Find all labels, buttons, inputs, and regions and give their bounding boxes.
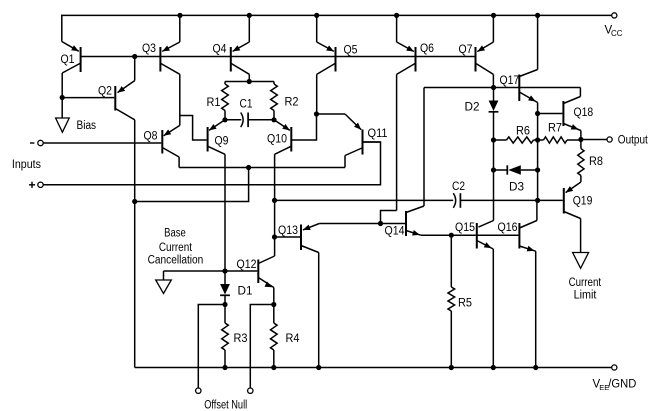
- terminal inverting input: [38, 140, 43, 145]
- svg-text:Q11: Q11: [368, 128, 388, 140]
- junction 537.6,200.4: [535, 198, 540, 203]
- junction 493.5,RAIL_T: [491, 13, 496, 18]
- wire Q6 collector: [396, 74, 398, 210]
- junction 180,RAIL_T: [177, 13, 182, 18]
- label plus: [29, 182, 35, 188]
- svg-text:Q13: Q13: [278, 225, 298, 237]
- wire Q14 collector: [423, 88, 425, 207]
- wire Q3 collector: [179, 74, 181, 125]
- wire Q13 base: [275, 236, 301, 238]
- label Bias: [77, 120, 97, 132]
- transistor Q8: [162, 125, 180, 157]
- svg-text:CC: CC: [611, 29, 623, 38]
- junction 249.3,RAIL_T: [247, 13, 252, 18]
- svg-text:D2: D2: [465, 102, 480, 114]
- junction 134.7,201.5: [132, 199, 137, 204]
- junction 396.6,RAIL_T: [394, 13, 399, 18]
- wire Q14 emitter: [421, 234, 476, 236]
- label Q18: [574, 107, 594, 119]
- terminal VCC: [612, 13, 617, 18]
- wire: [580, 131, 582, 140]
- label R1: [207, 97, 221, 109]
- wire Q14 base: [381, 223, 406, 225]
- wire Q19 base: [538, 199, 563, 201]
- junction 225,271: [222, 268, 227, 273]
- junction 493.5,140: [491, 137, 496, 142]
- label Q3: [142, 43, 156, 55]
- transistor Q14: [406, 206, 424, 236]
- transistor Q2: [115, 81, 134, 120]
- svg-text:Q4: Q4: [213, 44, 228, 56]
- junction 316.7,RAIL_T: [314, 13, 319, 18]
- svg-text:R6: R6: [516, 126, 530, 138]
- wire Q19 collector: [580, 219, 582, 253]
- label R6: [516, 126, 530, 138]
- junction 537.6,140: [535, 137, 540, 142]
- resistor R8: [578, 140, 584, 183]
- wire Q11 collector: [344, 156, 346, 168]
- transistor Q9: [208, 120, 225, 155]
- label R2: [285, 97, 299, 109]
- junction 451.3,235.2: [449, 233, 454, 238]
- label Base Current Cancellation: [148, 228, 204, 267]
- resistor R2: [271, 82, 278, 120]
- diode D1: [220, 271, 230, 305]
- label Q13: [278, 225, 298, 237]
- svg-text:Base: Base: [164, 228, 186, 240]
- resistor R1: [222, 82, 229, 120]
- svg-text:Bias: Bias: [77, 120, 97, 132]
- svg-text:Q16: Q16: [498, 222, 518, 234]
- wire Q15 emitter: [492, 249, 494, 368]
- wire Q17 base net: [424, 87, 580, 89]
- wire left drop: [134, 120, 136, 368]
- junction 537.6,170: [535, 167, 540, 172]
- junction 318.7,RAIL_B: [316, 365, 321, 370]
- svg-text:Offset Null: Offset Null: [204, 400, 247, 411]
- svg-text:Q3: Q3: [142, 43, 156, 55]
- junction 493.3,RAIL_B: [491, 365, 496, 370]
- wire Q10 collector: [274, 154, 276, 256]
- junction 316.5,114: [314, 111, 319, 116]
- wire Q11 emitter: [317, 113, 346, 115]
- label D3: [509, 182, 524, 194]
- label Q4: [213, 44, 228, 56]
- junction 62.2,97.5: [60, 95, 65, 100]
- label Current Limit: [569, 277, 602, 302]
- resistor R6: [494, 137, 538, 143]
- label Q12: [237, 259, 257, 271]
- junction 451.3,RAIL_B: [449, 365, 454, 370]
- wire comp link: [135, 168, 249, 202]
- svg-text:Q18: Q18: [574, 107, 594, 119]
- svg-text:Limit: Limit: [574, 290, 598, 302]
- transistor Q12: [258, 256, 274, 288]
- label R4: [286, 333, 301, 345]
- wire Q10 base: [291, 114, 316, 140]
- svg-text:Q1: Q1: [61, 54, 75, 66]
- label Q8: [144, 131, 158, 143]
- label R7: [548, 123, 562, 135]
- label C1: [240, 99, 253, 111]
- label R3: [234, 333, 248, 345]
- svg-text:Q6: Q6: [420, 43, 434, 55]
- junction 225,119.8: [222, 117, 227, 122]
- wire Q16 collector: [536, 200, 538, 220]
- wire: [61, 15, 63, 42]
- label Q6: [420, 43, 434, 55]
- svg-text:C1: C1: [240, 99, 253, 111]
- transistor Q10: [274, 120, 291, 155]
- ground Bias: [56, 118, 70, 132]
- svg-text:Q19: Q19: [573, 196, 593, 208]
- junction 225,RAIL_B: [222, 365, 227, 370]
- svg-text:Current: Current: [569, 277, 602, 289]
- label VEE GND: [593, 379, 637, 393]
- wire Q5 collector: [316, 74, 318, 114]
- transistor Q4: [231, 15, 250, 74]
- junction 493.5,170: [491, 167, 496, 172]
- wire Q11 base: [363, 141, 381, 143]
- label Q7: [459, 44, 473, 56]
- svg-text:R4: R4: [286, 333, 301, 345]
- terminal VEE: [612, 365, 617, 370]
- svg-text:R7: R7: [548, 123, 562, 135]
- label Q9: [215, 136, 229, 148]
- svg-text:Current: Current: [159, 242, 193, 254]
- wire: [163, 271, 165, 280]
- svg-text:Q17: Q17: [500, 75, 520, 87]
- junction 537.6,RAIL_T: [535, 13, 540, 18]
- ground Current Limit: [573, 253, 589, 269]
- label Output: [618, 135, 649, 147]
- svg-text:Q7: Q7: [459, 44, 473, 56]
- svg-text:Q2: Q2: [98, 86, 112, 98]
- svg-text:/GND: /GND: [608, 379, 636, 391]
- svg-text:Q10: Q10: [267, 134, 287, 146]
- diode D2: [489, 88, 499, 221]
- svg-text:Q14: Q14: [385, 226, 406, 238]
- label R5: [458, 298, 472, 310]
- wire Q13 collector: [318, 253, 320, 368]
- terminal Output: [607, 137, 612, 142]
- label Q19: [573, 196, 593, 208]
- svg-text:R8: R8: [589, 156, 603, 168]
- wire Q2 base: [62, 97, 114, 99]
- svg-text:R1: R1: [207, 97, 221, 109]
- svg-text:Q8: Q8: [144, 131, 158, 143]
- junction 537.6,113.5: [535, 111, 540, 116]
- svg-text:R5: R5: [458, 298, 472, 310]
- label Q16: [498, 222, 518, 234]
- svg-text:R3: R3: [234, 333, 248, 345]
- label R8: [589, 156, 603, 168]
- svg-text:Q12: Q12: [237, 259, 257, 271]
- wire Q17 collector: [537, 15, 539, 69]
- wire: [248, 74, 250, 81]
- svg-text:Inputs: Inputs: [12, 159, 41, 171]
- wire -input: [43, 142, 161, 144]
- junction 380.5,223.5: [378, 221, 383, 226]
- label VCC: [605, 25, 623, 39]
- wire Q7 collector: [492, 74, 494, 87]
- transistor Q16: [519, 221, 537, 252]
- svg-text:C2: C2: [452, 181, 465, 193]
- transistor Q6: [397, 15, 416, 74]
- resistor R7: [538, 137, 581, 143]
- wire: [381, 211, 397, 224]
- junction 249,81.5: [247, 79, 252, 84]
- junction 273.8,304.5: [271, 302, 276, 307]
- transistor Q1: [62, 42, 81, 74]
- wire: [134, 57, 136, 81]
- junction 225,304.5: [222, 302, 227, 307]
- diode D3: [494, 165, 538, 175]
- wire Q12 base: [164, 270, 258, 272]
- junction 274.5,237: [272, 234, 277, 239]
- label minus: [30, 142, 34, 144]
- svg-text:Cancellation: Cancellation: [148, 255, 204, 267]
- label Q14: [385, 226, 406, 238]
- wire offset tap 2: [250, 305, 273, 389]
- junction 493.5,87.5: [491, 85, 496, 90]
- wire to Q9 base: [180, 116, 207, 141]
- wire Q18 base: [538, 113, 563, 115]
- wire Q15 Q16 base: [477, 234, 519, 236]
- resistor R5: [448, 235, 455, 367]
- wire Q18 collector: [579, 88, 581, 97]
- label D1: [238, 286, 253, 298]
- label D2: [465, 102, 480, 114]
- transistor Q18: [563, 97, 581, 131]
- svg-text:D3: D3: [509, 182, 524, 194]
- wire Q13 emitter: [319, 223, 380, 225]
- wire VEE rail: [135, 367, 612, 369]
- terminal Offset Null 1: [196, 388, 201, 393]
- svg-text:R2: R2: [285, 97, 299, 109]
- junction 274.5,200.4: [272, 198, 277, 203]
- wire Q16 emitter: [535, 251, 537, 367]
- transistor Q13: [301, 224, 319, 253]
- label Q17: [500, 75, 520, 87]
- svg-text:Output: Output: [618, 135, 649, 147]
- wire output: [581, 139, 607, 141]
- label Inputs: [12, 159, 41, 171]
- junction 273.8,RAIL_B: [271, 365, 276, 370]
- svg-text:D1: D1: [238, 286, 253, 298]
- label Q15: [455, 222, 475, 234]
- wire Q12 emitter: [273, 288, 275, 368]
- resistor R3: [222, 305, 229, 368]
- wire Q8 collector: [178, 157, 180, 168]
- wire offset tap 1: [198, 305, 225, 389]
- wire VCC rail: [61, 14, 612, 16]
- junction 535.7,RAIL_B: [533, 365, 538, 370]
- transistor Q19: [564, 182, 581, 219]
- transistor Q7: [476, 15, 494, 74]
- wire mirror link: [179, 167, 345, 169]
- transistor Q3: [160, 15, 179, 74]
- wire R1R2 top: [225, 81, 274, 83]
- label Offset Null: [204, 400, 247, 411]
- svg-text:Q9: Q9: [215, 136, 229, 148]
- transistor Q5: [317, 15, 336, 74]
- wire Q9 collector: [224, 154, 226, 271]
- wire +input: [43, 142, 380, 185]
- label Q1: [61, 54, 75, 66]
- label C2: [452, 181, 465, 193]
- wire: [61, 73, 63, 118]
- wire base bus: [81, 56, 476, 58]
- transistor Q15: [477, 221, 494, 250]
- resistor R4: [271, 323, 278, 350]
- capacitor C1: [225, 113, 274, 128]
- terminal Offset Null 2: [248, 388, 253, 393]
- svg-text:Q15: Q15: [455, 222, 475, 234]
- ground base current cancellation: [156, 280, 172, 294]
- label Q5: [344, 45, 358, 57]
- capacitor C2: [275, 193, 538, 208]
- label Q2: [98, 86, 112, 98]
- wire Q17 emitter chain: [537, 103, 539, 201]
- junction base bus: [132, 54, 137, 59]
- junction 248.6,167.5: [246, 165, 251, 170]
- label Q11: [368, 128, 388, 140]
- junction 274,119.8: [271, 117, 276, 122]
- terminal noninverting input: [38, 182, 43, 187]
- label Q10: [267, 134, 287, 146]
- transistor Q11: [345, 114, 363, 156]
- junction output node: [578, 137, 583, 142]
- svg-text:Q5: Q5: [344, 45, 358, 57]
- transistor Q17: [519, 70, 537, 103]
